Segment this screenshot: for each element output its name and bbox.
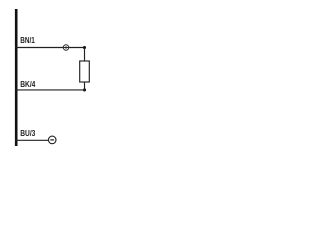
svg-text:BU/3: BU/3 <box>20 128 35 138</box>
svg-text:BN/1: BN/1 <box>20 35 35 45</box>
svg-text:BK/4: BK/4 <box>20 79 35 89</box>
